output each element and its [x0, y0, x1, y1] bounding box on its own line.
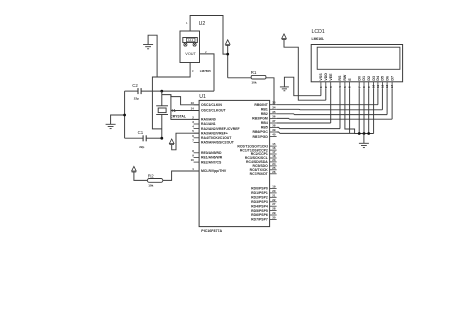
LCD pin 4 RS [338, 75, 342, 88]
ground (top left, U2) [143, 35, 157, 77]
wire D4 to RB0 [277, 88, 378, 104]
junction node crystal top [160, 90, 163, 93]
svg-text:22p: 22p [134, 97, 139, 101]
svg-text:40: 40 [272, 133, 276, 137]
pin 39 RB6/PGC [253, 128, 277, 134]
svg-text:RW: RW [343, 74, 347, 81]
svg-text:22: 22 [272, 198, 276, 202]
svg-text:RA0/AN0: RA0/AN0 [201, 118, 216, 122]
pin 3 RA1/AN1 [192, 120, 216, 126]
U2 pin 2 wire [200, 50, 215, 91]
svg-text:D7: D7 [390, 76, 394, 81]
svg-text:VEE: VEE [329, 73, 333, 81]
wire crystal top [161, 91, 163, 106]
svg-text:D4: D4 [376, 76, 380, 81]
svg-text:RB3/PGM: RB3/PGM [252, 117, 268, 121]
svg-text:LCD1: LCD1 [312, 29, 325, 35]
pin 28 RD5/PSP5 [251, 207, 276, 213]
svg-text:13: 13 [385, 84, 389, 88]
svg-text:RA5/AN4/SS/C2OUT: RA5/AN4/SS/C2OUT [201, 141, 235, 145]
pin 35 RB2 [261, 110, 277, 116]
wire D6 to RB2 [277, 88, 388, 114]
svg-text:RB6/PGC: RB6/PGC [253, 130, 269, 134]
pin 5 RA3/AN3/VREF+ [192, 129, 228, 135]
svg-text:RB5: RB5 [261, 126, 268, 130]
pin 22 RD3/PSP3 [251, 198, 276, 204]
svg-text:RB7/PGD: RB7/PGD [253, 135, 269, 139]
svg-text:20: 20 [272, 189, 276, 193]
svg-text:RB2: RB2 [261, 112, 268, 116]
wire D1 drop [363, 88, 365, 133]
svg-text:U1: U1 [199, 94, 206, 100]
svg-text:D1: D1 [362, 76, 366, 81]
power +5V arrow A4 (MCLR pullup) [132, 166, 148, 180]
pin 17 RC2/CCP1 [251, 150, 277, 156]
wire LCD VSS to ground [320, 88, 322, 95]
svg-text:14: 14 [191, 107, 195, 111]
svg-text:14: 14 [390, 84, 394, 88]
svg-text:19: 19 [272, 185, 276, 189]
pin 10 RE2/AN7/CS [191, 158, 222, 164]
LCD pin 13 D6 [385, 76, 389, 88]
svg-text:D0: D0 [357, 76, 361, 81]
power +5V arrow A1 [225, 40, 230, 78]
pin 6 RA4/T0CKI/C1OUT [192, 134, 232, 140]
pin 18 RC3/SCK/SCL [245, 154, 277, 160]
wire R1 to RB0 [266, 78, 274, 105]
svg-text:35: 35 [272, 110, 276, 114]
wire D0 drop [358, 88, 360, 133]
LCD pin 11 D4 [376, 76, 380, 88]
junction dot U2 pin1/arrow/R1 [226, 53, 229, 56]
ground (crystal caps) [106, 115, 125, 129]
wire VEE to RB4 [277, 88, 331, 123]
svg-text:RC7/RX/DT: RC7/RX/DT [250, 172, 269, 176]
pin 27 RD4/PSP4 [251, 202, 276, 208]
svg-text:14.2: 14.2 [188, 38, 194, 42]
LCD pin 10 D3 [372, 76, 376, 88]
pin 37 RB4 [261, 119, 277, 125]
svg-text:21: 21 [272, 193, 276, 197]
svg-text:OSC2/CLKOUT: OSC2/CLKOUT [201, 109, 227, 113]
svg-text:33: 33 [272, 101, 276, 105]
pin 40 RB7/PGD [253, 133, 277, 139]
svg-text:RA1/AN1: RA1/AN1 [201, 122, 216, 126]
wire D2 drop [368, 88, 370, 133]
LCD pin 6 E [348, 78, 352, 89]
wire OSC1 to pin 13 [162, 95, 199, 105]
pin 23 RC4/SDI/SDA [246, 158, 277, 164]
pin 29 RD6/PSP6 [251, 211, 276, 217]
svg-text:LM7805: LM7805 [200, 69, 211, 73]
pin 36 RB3/PGM [252, 114, 276, 120]
svg-text:D2: D2 [367, 76, 371, 81]
wire D5 to RB1 [277, 88, 383, 110]
pin 8 RE0/AN5/RD [192, 149, 222, 155]
wire RW to ground rail [345, 88, 374, 133]
svg-text:RD2/PSP2: RD2/PSP2 [251, 196, 268, 200]
svg-text:RD1/PSP1: RD1/PSP1 [251, 191, 268, 195]
svg-text:28: 28 [272, 207, 276, 211]
pin 26 RC7/RX/DT [250, 170, 277, 176]
power +5V arrow A2 (LCD VDD) [282, 34, 326, 100]
svg-text:OSC1/CLKIN: OSC1/CLKIN [201, 103, 222, 107]
wire crystal bottom [161, 115, 163, 139]
crystal X1 [156, 106, 186, 119]
pin 25 RC6/TX/CK [250, 166, 277, 172]
svg-text:D6: D6 [385, 76, 389, 81]
svg-text:CRYSTAL: CRYSTAL [170, 115, 186, 119]
wire R2 to MCLR [163, 171, 199, 180]
svg-text:U2: U2 [199, 21, 206, 27]
pin 14 OSC2/CLKOUT [191, 107, 227, 113]
svg-text:22p: 22p [139, 145, 144, 149]
svg-text:37: 37 [272, 119, 276, 123]
svg-text:PIC16F877A: PIC16F877A [201, 229, 222, 233]
pin 21 RD2/PSP2 [251, 193, 276, 199]
wire OSC2 pin 14 [171, 110, 199, 112]
svg-text:RD6/PSP6: RD6/PSP6 [251, 213, 268, 217]
svg-text:38: 38 [272, 123, 276, 127]
pin 4 RA2/AN2/VREF-/CVREF [192, 125, 239, 131]
svg-text:C2: C2 [132, 83, 138, 88]
svg-text:10k: 10k [251, 81, 256, 85]
svg-text:RE0/AN5/RD: RE0/AN5/RD [201, 151, 222, 155]
svg-text:RD4/PSP4: RD4/PSP4 [251, 204, 268, 208]
junction dots D0 D1 D2 [358, 132, 370, 135]
wire 5V rail / OSC node [141, 90, 214, 92]
wire C2/C1 ground vertical [124, 91, 126, 138]
junction dot C1/crystal [160, 137, 163, 140]
svg-text:11: 11 [376, 85, 380, 88]
resistor R1 [228, 70, 266, 85]
pin 16 RC1/T1OSI/CCP2 [240, 146, 277, 152]
LCD pin 14 D7 [390, 76, 394, 88]
pin 13 OSC1/CLKIN [191, 101, 223, 107]
LCD pin 12 D5 [381, 76, 385, 88]
pin 9 RE1/AN6/WR [192, 154, 223, 160]
wire RS to RB5 [277, 88, 340, 128]
svg-text:10k: 10k [148, 183, 153, 187]
svg-text:RD0/PSP0: RD0/PSP0 [251, 187, 268, 191]
junction dot mid ground [123, 114, 126, 117]
svg-text:36: 36 [272, 114, 276, 118]
svg-text:26: 26 [272, 170, 276, 174]
LCD pin 8 D1 [362, 76, 366, 88]
svg-text:VOUT: VOUT [185, 52, 196, 56]
wire D7 to RB3 [277, 88, 393, 119]
svg-text:34: 34 [272, 105, 276, 109]
ground (LCD VSS) [280, 77, 321, 96]
pin 1 MCLR/Vpp/THV [192, 167, 227, 173]
LCD1 LM016L [311, 29, 402, 82]
pin 33 RB0/INT [254, 101, 276, 107]
pin 30 RD7/PSP7 [251, 215, 276, 221]
svg-text:RA4/T0CKI/C1OUT: RA4/T0CKI/C1OUT [201, 136, 232, 140]
svg-text:RE1/AN6/WR: RE1/AN6/WR [201, 156, 223, 160]
pin 19 RD0/PSP0 [251, 185, 276, 191]
svg-text:R2: R2 [148, 174, 154, 179]
LCD pin 1 VSS [319, 73, 323, 88]
svg-text:RB4: RB4 [261, 121, 268, 125]
svg-text:RD5/PSP5: RD5/PSP5 [251, 209, 268, 213]
svg-text:30: 30 [272, 215, 276, 219]
wire D3 drop [373, 88, 375, 133]
svg-text:RA3/AN3/VREF+: RA3/AN3/VREF+ [201, 131, 228, 135]
svg-text:RS: RS [338, 75, 342, 81]
capacitor C2 [125, 83, 142, 101]
svg-text:39: 39 [272, 128, 276, 132]
capacitor C1 [125, 130, 162, 149]
voltage regulator U2 [180, 21, 211, 73]
ground (LCD data) [359, 134, 369, 148]
wire node to RA0 [171, 95, 199, 120]
resistor R2 [147, 174, 162, 188]
wire E to RB6 [277, 88, 355, 133]
svg-text:R1: R1 [251, 70, 257, 75]
svg-text:12: 12 [381, 84, 385, 88]
svg-text:VDD: VDD [324, 73, 328, 81]
LCD pin 9 D2 [367, 76, 371, 88]
pin 24 RC5/SDO [253, 162, 277, 168]
svg-text:LM016L: LM016L [312, 37, 325, 41]
svg-text:27: 27 [272, 202, 276, 206]
U2 pin 1 wire [186, 16, 228, 55]
svg-text:RD7/PSP7: RD7/PSP7 [251, 218, 268, 222]
pin 20 RD1/PSP1 [251, 189, 276, 195]
svg-text:RB0/INT: RB0/INT [254, 103, 268, 107]
svg-text:RE2/AN7/CS: RE2/AN7/CS [201, 160, 222, 164]
pin 2 RA0/AN0 [192, 115, 216, 121]
svg-text:VSS: VSS [319, 73, 323, 81]
pin 7 RA5/AN4/SS/C2OUT [192, 138, 235, 144]
pin 15 RC0/T1OSO/T1CKI [237, 142, 276, 148]
LCD pin 2 VDD [324, 73, 328, 89]
svg-text:13: 13 [191, 101, 195, 105]
LCD pin 5 RW [343, 74, 347, 88]
svg-text:MCLR/Vpp/THV: MCLR/Vpp/THV [201, 169, 227, 173]
svg-text:RB1: RB1 [261, 108, 268, 112]
svg-text:C1: C1 [138, 130, 144, 135]
microcontroller U1 PIC16F877A [199, 94, 270, 233]
LCD pin 7 D0 [357, 76, 361, 88]
svg-text:RA2/AN2/VREF-/CVREF: RA2/AN2/VREF-/CVREF [201, 127, 240, 131]
pin 34 RB1 [261, 105, 277, 111]
LCD pin 3 VEE [329, 73, 333, 88]
svg-text:10: 10 [191, 158, 195, 162]
svg-text:RD3/PSP3: RD3/PSP3 [251, 200, 268, 204]
wire LCD VDD drop [325, 88, 327, 100]
power +5V arrow A3 (VREF+) [169, 133, 199, 150]
svg-text:29: 29 [272, 211, 276, 215]
svg-text:D5: D5 [381, 76, 385, 81]
U2 pin 3 wire [152, 63, 193, 129]
pin 38 RB5 [261, 123, 277, 129]
